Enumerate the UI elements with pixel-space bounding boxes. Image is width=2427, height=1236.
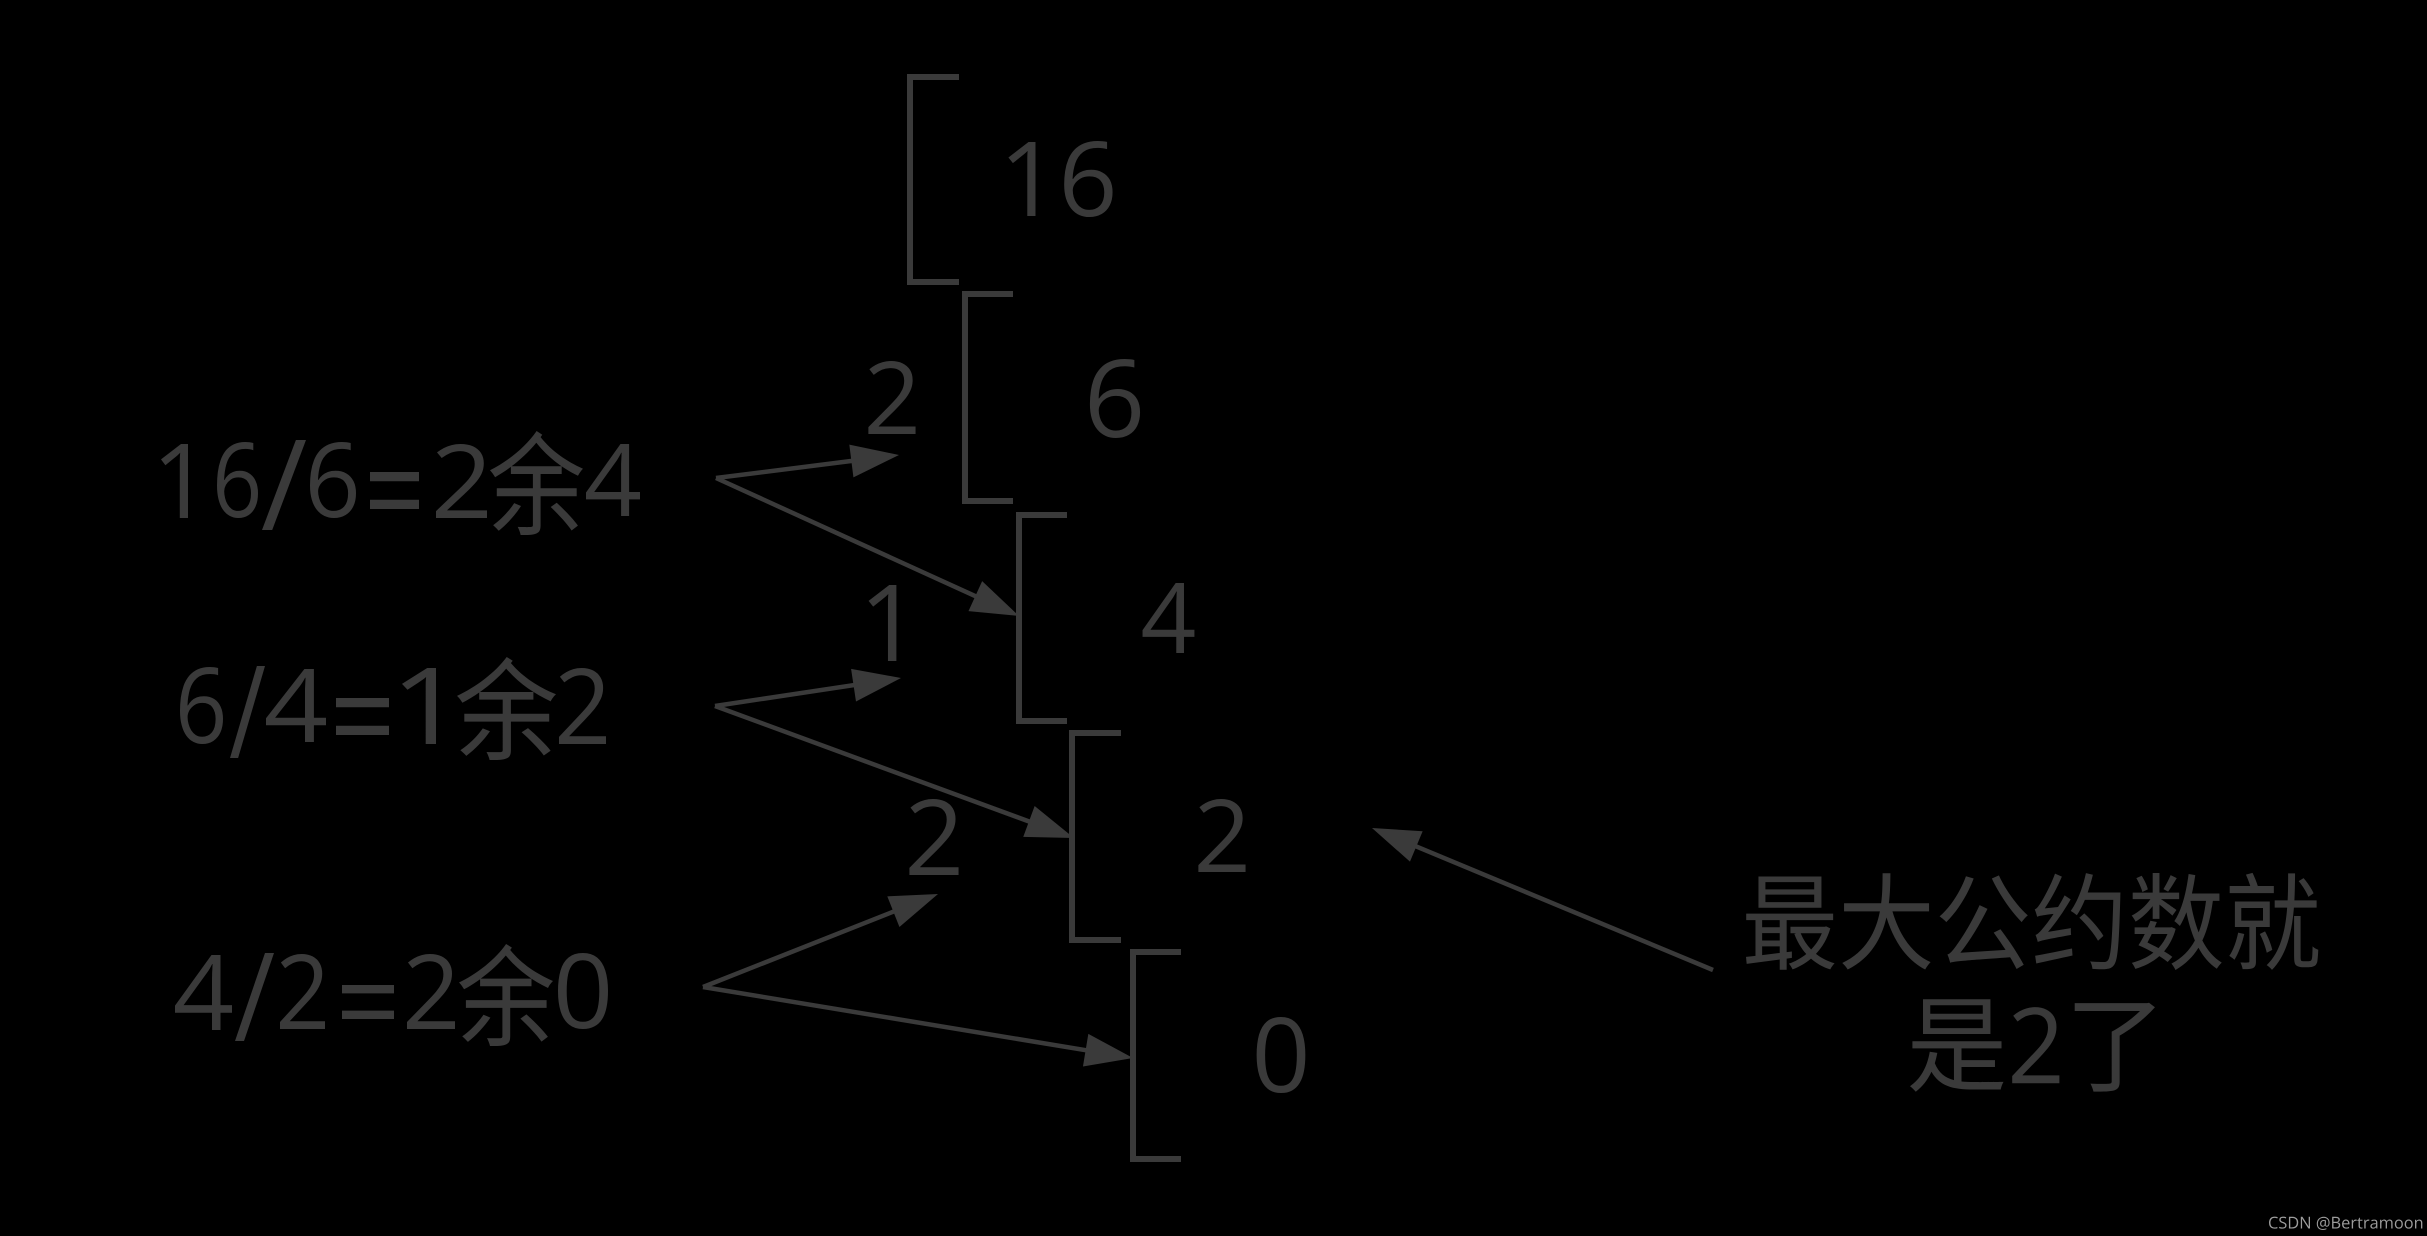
- label 4/2=2 yu 0: [175, 944, 608, 1046]
- arrow 16/6 to quotient 2: [716, 445, 899, 478]
- bracket step 1 (16): [910, 77, 959, 282]
- quotient 1 (6/4): [869, 585, 897, 661]
- arrow 4/2 remainder to step-5 bracket: [703, 987, 1133, 1066]
- arrow 16/6 remainder to step-3 bracket: [716, 478, 1019, 616]
- label 6/4=1 yu 2: [180, 657, 606, 760]
- divisor 6: [1090, 359, 1140, 438]
- arrow 4/2 to quotient 2: [703, 894, 938, 987]
- arrow from note to gcd 2: [1372, 828, 1713, 970]
- quotient 2 (16/6): [868, 361, 915, 434]
- remainder 4: [1143, 583, 1195, 653]
- dividend 16: [1008, 141, 1112, 217]
- remainder 2 (gcd): [1198, 799, 1245, 872]
- arrow 6/4 to quotient 1: [715, 669, 901, 706]
- label 16/6=2 yu 4: [161, 431, 640, 535]
- bracket step 5 (0): [1133, 952, 1181, 1159]
- arrow 6/4 remainder to step-4 bracket: [715, 706, 1074, 838]
- bracket step 3 (4): [1019, 515, 1067, 721]
- note line1: zui da gong yue shu jiu: [1746, 873, 2318, 970]
- quotient 2 (4/2): [909, 799, 958, 875]
- bracket step 4 (2): [1072, 733, 1121, 940]
- bracket step 2 (6): [965, 294, 1013, 501]
- remainder 0: [1257, 1017, 1306, 1093]
- watermark CSDN @Bertramoon: [2269, 1217, 2422, 1230]
- note line2: shi 2 le: [1910, 999, 2155, 1091]
